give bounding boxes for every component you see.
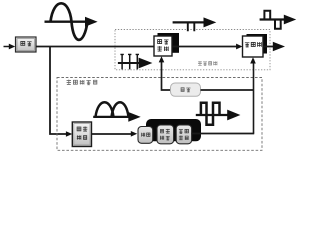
pulse glyph above (after decision) <box>173 22 206 31</box>
right vertical wire up to code former <box>253 60 255 134</box>
label 定时钟提取 <box>67 80 97 85</box>
phase adjust box (相位调整) <box>157 125 174 144</box>
full-wave rectifier box (全波整流) <box>72 122 91 147</box>
wire: branch down to timing chain <box>50 47 67 135</box>
resonator box (调谐) <box>138 127 153 144</box>
sampling/decision box (抽样判决) with shadow <box>158 33 180 53</box>
wire decision -> code former <box>172 46 238 48</box>
main wire top <box>36 46 155 48</box>
code forming box (码形成) with shadow <box>247 34 268 54</box>
amplifier box (均放) <box>16 37 37 52</box>
output wire <box>263 46 274 48</box>
input arrow <box>4 46 11 48</box>
black shadow behind bottom boxes <box>146 119 201 141</box>
bipolar pulse glyph top right <box>260 11 286 29</box>
label 判决再生 <box>198 61 217 65</box>
wire: narrowband amp to right vertical <box>201 89 254 91</box>
impulse-train glyph inside dotted box <box>118 54 140 69</box>
dashed box (timing extraction region) <box>57 78 262 151</box>
wire rectifier -> resonator <box>92 133 133 135</box>
bipolar square wave glyph <box>196 103 229 125</box>
dotted box (decision regeneration region) <box>115 30 270 70</box>
wire pulse former -> right vertical <box>192 133 255 135</box>
rectified wave glyph (double hump) <box>93 102 131 117</box>
pulse forming box (脉冲形成) <box>176 125 191 144</box>
arrowhead into rectifier <box>66 131 72 137</box>
narrowband amp box (简放) <box>171 83 201 96</box>
wire: narrowband amp up to decision box <box>162 59 171 91</box>
sine waveform glyph <box>45 3 89 40</box>
